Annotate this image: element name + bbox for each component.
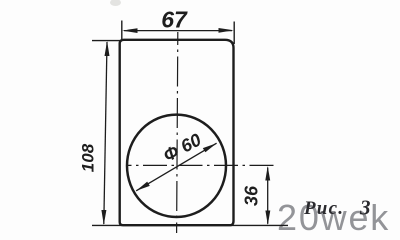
svg-text:3: 3 <box>359 196 371 220</box>
svg-text:67: 67 <box>161 7 188 33</box>
svg-text:36: 36 <box>242 185 262 206</box>
svg-text:108: 108 <box>79 143 98 172</box>
svg-text:Рис.: Рис. <box>303 198 344 219</box>
svg-text:Φ 60: Φ 60 <box>160 130 205 166</box>
